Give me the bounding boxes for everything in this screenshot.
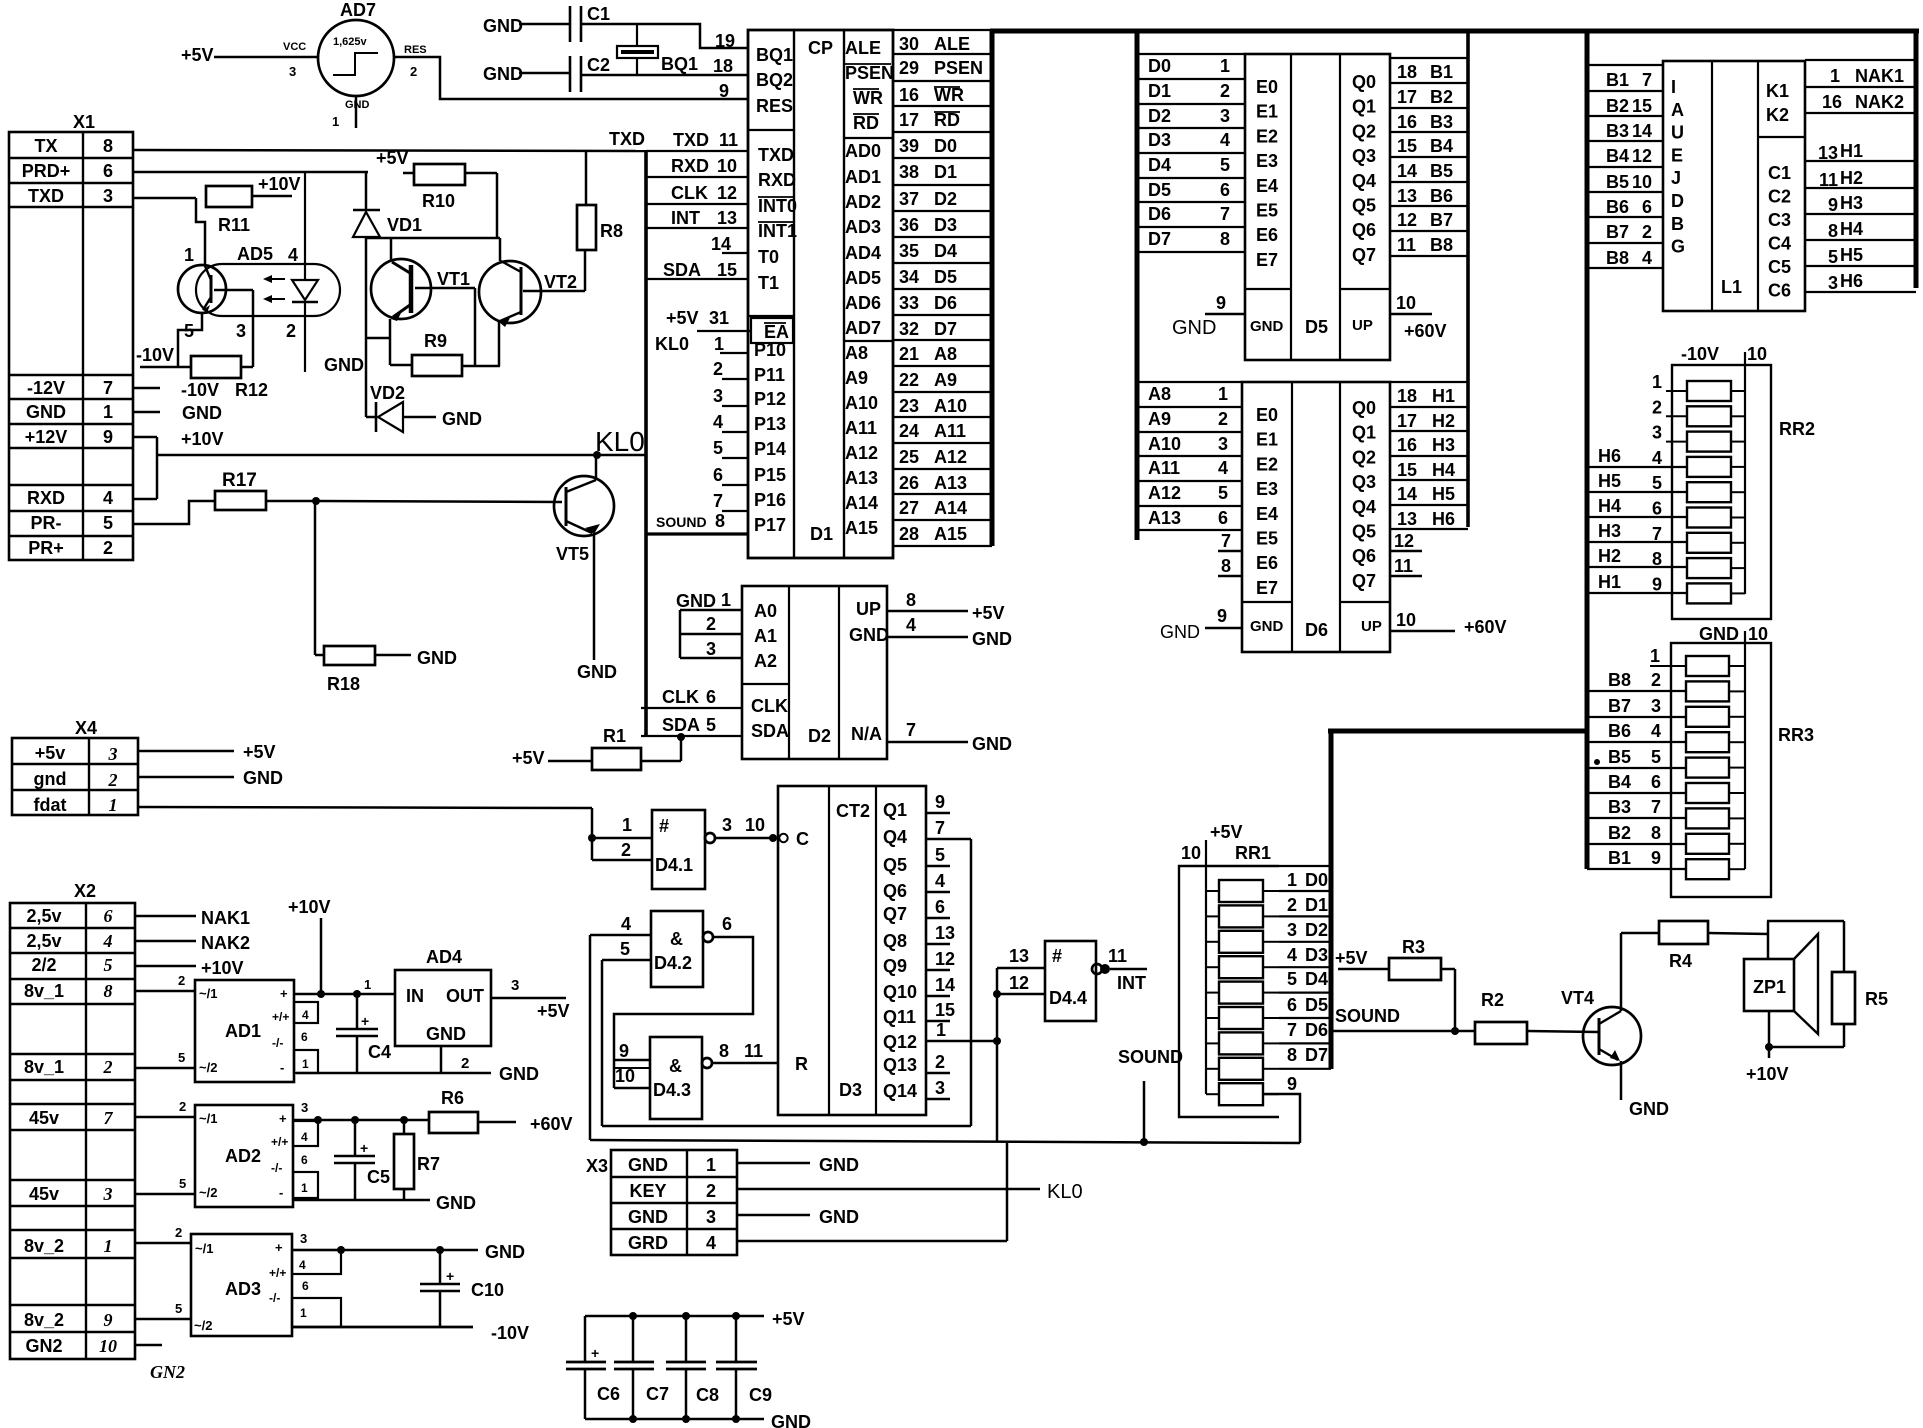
wire AD3 pin3 output bbox=[292, 1231, 525, 1262]
wire net Q4 to D4.2 input5 bbox=[602, 960, 971, 1126]
svg-text:GN2: GN2 bbox=[150, 1362, 185, 1382]
wire AD2 pin3 output bbox=[293, 1100, 429, 1124]
svg-text:D: D bbox=[1671, 191, 1684, 211]
svg-text:+: + bbox=[275, 1240, 283, 1255]
svg-text:B7: B7 bbox=[1606, 222, 1629, 242]
svg-text:NAK2: NAK2 bbox=[1855, 92, 1904, 112]
svg-text:GRD: GRD bbox=[628, 1233, 668, 1253]
svg-text:-10V: -10V bbox=[1681, 344, 1719, 364]
svg-text:+: + bbox=[361, 1013, 369, 1029]
opto LED diode bbox=[286, 172, 318, 372]
svg-text:1: 1 bbox=[721, 590, 731, 610]
wire X2 GN2 stub bbox=[135, 1345, 185, 1382]
svg-text:AD6: AD6 bbox=[845, 293, 881, 313]
svg-text:A15: A15 bbox=[934, 524, 967, 544]
svg-text:Q4: Q4 bbox=[883, 827, 907, 847]
svg-text:AD2: AD2 bbox=[845, 192, 881, 212]
svg-text:1: 1 bbox=[936, 1020, 946, 1040]
counter D3 bbox=[778, 786, 926, 1115]
svg-text:17: 17 bbox=[899, 110, 919, 130]
RR1 right pin rows bbox=[1279, 870, 1331, 1094]
svg-text:A2: A2 bbox=[754, 651, 777, 671]
svg-text:16: 16 bbox=[1822, 92, 1842, 112]
svg-text:26: 26 bbox=[899, 473, 919, 493]
resistor R12 bbox=[136, 345, 253, 378]
svg-text:A10: A10 bbox=[845, 393, 878, 413]
svg-text:D3: D3 bbox=[934, 215, 957, 235]
svg-text:1: 1 bbox=[300, 1306, 307, 1320]
svg-text:T1: T1 bbox=[758, 273, 779, 293]
svg-text:K2: K2 bbox=[1766, 105, 1789, 125]
svg-text:+60V: +60V bbox=[530, 1114, 573, 1134]
wire D4.1 output to D3 C input bbox=[715, 815, 777, 842]
svg-text:E7: E7 bbox=[1256, 578, 1278, 598]
svg-text:C2: C2 bbox=[587, 55, 610, 75]
svg-text:+5V: +5V bbox=[376, 148, 409, 168]
svg-text:7: 7 bbox=[104, 1108, 114, 1128]
logic gate D4.1 bbox=[592, 810, 715, 889]
svg-text:H4: H4 bbox=[1432, 460, 1455, 480]
svg-text:A11: A11 bbox=[1148, 458, 1180, 478]
svg-text:GND: GND bbox=[436, 1193, 476, 1213]
resistor R1 bbox=[512, 726, 685, 770]
regulator AD1 bbox=[195, 980, 294, 1082]
svg-text:AD4: AD4 bbox=[426, 947, 462, 967]
D1 right pin rows bbox=[893, 30, 992, 546]
svg-text:D4: D4 bbox=[934, 241, 957, 261]
svg-text:KL0: KL0 bbox=[655, 334, 689, 354]
svg-text:~/1: ~/1 bbox=[195, 1241, 213, 1256]
svg-text:1: 1 bbox=[301, 1181, 308, 1195]
svg-text:+10V: +10V bbox=[258, 174, 301, 194]
svg-text:4: 4 bbox=[1642, 248, 1652, 268]
svg-text:2: 2 bbox=[1218, 409, 1228, 429]
svg-text:E6: E6 bbox=[1256, 553, 1278, 573]
svg-text:5: 5 bbox=[104, 955, 113, 975]
svg-text:2/2: 2/2 bbox=[31, 955, 56, 975]
resistor R8 bbox=[577, 151, 623, 250]
svg-text:1: 1 bbox=[104, 1236, 113, 1256]
svg-text:27: 27 bbox=[899, 498, 919, 518]
wire opto pin 3 base bbox=[214, 290, 253, 367]
D1 left pin harness bbox=[646, 130, 751, 737]
svg-text:Q0: Q0 bbox=[1352, 72, 1376, 92]
svg-text:D6: D6 bbox=[934, 293, 957, 313]
svg-text:GND: GND bbox=[1172, 317, 1216, 339]
svg-text:GND: GND bbox=[1629, 1099, 1669, 1119]
AD1 pin6 label bbox=[301, 1030, 308, 1044]
svg-text:12: 12 bbox=[1632, 146, 1652, 166]
wire D2 UP pin 8 bbox=[887, 590, 1005, 623]
svg-text:Q5: Q5 bbox=[1352, 522, 1376, 542]
svg-text:+: + bbox=[279, 1111, 287, 1126]
svg-text:Q11: Q11 bbox=[883, 1007, 916, 1027]
svg-text:GND: GND bbox=[771, 1412, 811, 1428]
svg-text:D5: D5 bbox=[934, 267, 957, 287]
svg-text:Q6: Q6 bbox=[883, 881, 907, 901]
svg-text:KEY: KEY bbox=[629, 1181, 666, 1201]
svg-text:AD5: AD5 bbox=[845, 268, 881, 288]
svg-text:5: 5 bbox=[1828, 247, 1838, 267]
svg-text:D6: D6 bbox=[1305, 620, 1328, 640]
wire X1 TXD3 to R11 bbox=[133, 197, 196, 200]
svg-text:OUT: OUT bbox=[446, 986, 484, 1006]
svg-text:10: 10 bbox=[745, 815, 765, 835]
svg-text:GND: GND bbox=[182, 403, 222, 423]
svg-text:Q5: Q5 bbox=[883, 855, 907, 875]
svg-text:3: 3 bbox=[103, 186, 113, 206]
svg-text:2: 2 bbox=[935, 1052, 945, 1072]
svg-text:P16: P16 bbox=[754, 490, 786, 510]
svg-text:GND: GND bbox=[485, 1242, 525, 1262]
svg-text:R6: R6 bbox=[441, 1088, 464, 1108]
svg-text:+10V: +10V bbox=[288, 897, 331, 917]
svg-text:AD7: AD7 bbox=[340, 0, 376, 20]
svg-text:R10: R10 bbox=[422, 191, 455, 211]
svg-text:11: 11 bbox=[1394, 556, 1413, 576]
svg-text:Q10: Q10 bbox=[883, 982, 917, 1002]
svg-text:C9: C9 bbox=[749, 1385, 772, 1405]
svg-text:B2: B2 bbox=[1430, 87, 1453, 107]
svg-text:R18: R18 bbox=[327, 674, 360, 694]
svg-text:3: 3 bbox=[1218, 434, 1228, 454]
svg-text:B6: B6 bbox=[1608, 721, 1631, 741]
svg-text:R3: R3 bbox=[1402, 937, 1425, 957]
svg-text:CLK: CLK bbox=[751, 696, 788, 716]
svg-text:10: 10 bbox=[99, 1336, 117, 1356]
svg-text:+5V: +5V bbox=[666, 308, 699, 328]
svg-text:18: 18 bbox=[1397, 62, 1417, 82]
svg-text:1: 1 bbox=[1830, 66, 1840, 86]
wire VD1 node to VT1 VT2 collectors bbox=[366, 237, 500, 240]
svg-text:+5V: +5V bbox=[972, 603, 1005, 623]
svg-text:A8: A8 bbox=[934, 344, 957, 364]
wire R17 node to VT5 base bbox=[316, 501, 562, 502]
wire KL0 net bbox=[133, 437, 646, 499]
svg-text:D3: D3 bbox=[1148, 130, 1171, 150]
svg-text:Q1: Q1 bbox=[883, 800, 907, 820]
svg-text:8v_2: 8v_2 bbox=[24, 1236, 64, 1256]
AD3 pin4 stub box bbox=[292, 1250, 341, 1274]
svg-text:H5: H5 bbox=[1432, 484, 1455, 504]
svg-text:3: 3 bbox=[236, 321, 246, 341]
svg-text:+5V: +5V bbox=[243, 742, 276, 762]
svg-text:#: # bbox=[1052, 946, 1062, 966]
svg-text:2: 2 bbox=[286, 321, 296, 341]
svg-text:SDA: SDA bbox=[663, 260, 701, 280]
svg-text:30: 30 bbox=[899, 34, 919, 54]
svg-text:B3: B3 bbox=[1606, 121, 1629, 141]
svg-text:4: 4 bbox=[935, 871, 945, 891]
transistor VT1 bbox=[371, 238, 470, 321]
svg-text:6: 6 bbox=[1220, 180, 1230, 200]
svg-text:E7: E7 bbox=[1256, 250, 1278, 270]
svg-text:8: 8 bbox=[1221, 556, 1231, 576]
resistor R9 bbox=[390, 331, 500, 376]
svg-text:8: 8 bbox=[103, 136, 113, 156]
svg-text:1: 1 bbox=[706, 1155, 716, 1175]
wire C2 to D1 pin 18 bbox=[581, 74, 748, 77]
wire top bus bbox=[990, 29, 1919, 34]
latch D6 left pin rows bbox=[1137, 382, 1242, 576]
wire AD7 RES to D1 pin 9 bbox=[394, 57, 748, 99]
svg-text:+5v: +5v bbox=[35, 743, 66, 763]
svg-text:1: 1 bbox=[109, 795, 118, 815]
svg-text:#: # bbox=[659, 816, 669, 836]
svg-text:X1: X1 bbox=[73, 112, 95, 132]
svg-text:D4.1: D4.1 bbox=[655, 855, 693, 875]
svg-text:9: 9 bbox=[104, 1310, 113, 1330]
net label SOUND stub bbox=[1118, 1047, 1183, 1146]
svg-text:14: 14 bbox=[935, 975, 955, 995]
svg-text:5: 5 bbox=[1218, 483, 1228, 503]
svg-text:H4: H4 bbox=[1840, 219, 1863, 239]
svg-text:BQ2: BQ2 bbox=[756, 70, 793, 90]
svg-text:C1: C1 bbox=[587, 4, 610, 24]
resistor R5 bbox=[1832, 972, 1888, 1047]
svg-text:4: 4 bbox=[103, 488, 113, 508]
connector X1 bbox=[9, 112, 133, 560]
net label KL0 bbox=[595, 426, 645, 457]
svg-text:RXD: RXD bbox=[671, 156, 709, 176]
svg-text:E4: E4 bbox=[1256, 504, 1278, 524]
svg-text:~/2: ~/2 bbox=[194, 1318, 212, 1333]
svg-text:+: + bbox=[446, 1268, 454, 1284]
svg-text:2: 2 bbox=[1287, 895, 1297, 915]
svg-text:Q6: Q6 bbox=[1352, 220, 1376, 240]
svg-text:B2: B2 bbox=[1608, 823, 1631, 843]
svg-text:B1: B1 bbox=[1608, 848, 1631, 868]
L1 right pin rows bbox=[1805, 60, 1916, 293]
svg-text:8: 8 bbox=[1220, 229, 1230, 249]
svg-text:+10V: +10V bbox=[201, 958, 244, 978]
svg-text:-/-: -/- bbox=[271, 1161, 282, 1175]
capacitor C1 bbox=[483, 4, 610, 42]
svg-text:6: 6 bbox=[301, 1153, 308, 1167]
regulator AD3 bbox=[191, 1234, 292, 1336]
svg-text:H3: H3 bbox=[1840, 193, 1863, 213]
L1 left pin rows bbox=[1587, 65, 1663, 268]
svg-text:+60V: +60V bbox=[1404, 321, 1447, 341]
svg-text:3: 3 bbox=[300, 1231, 307, 1246]
svg-text:VT5: VT5 bbox=[556, 544, 589, 564]
svg-text:D1: D1 bbox=[1148, 81, 1171, 101]
svg-text:VCC: VCC bbox=[283, 41, 306, 53]
svg-text:3: 3 bbox=[1828, 273, 1838, 293]
svg-text:GND: GND bbox=[819, 1207, 859, 1227]
svg-text:10: 10 bbox=[1396, 610, 1416, 630]
svg-text:D1: D1 bbox=[1305, 895, 1328, 915]
svg-text:7: 7 bbox=[1651, 797, 1661, 817]
svg-text:R9: R9 bbox=[424, 331, 447, 351]
svg-text:E3: E3 bbox=[1256, 479, 1278, 499]
svg-text:Q8: Q8 bbox=[883, 931, 907, 951]
svg-text:5: 5 bbox=[706, 715, 716, 735]
svg-text:1,625v: 1,625v bbox=[333, 36, 368, 48]
svg-text:B4: B4 bbox=[1606, 146, 1629, 166]
svg-text:D1: D1 bbox=[810, 524, 833, 544]
svg-text:6: 6 bbox=[935, 897, 945, 917]
svg-text:16: 16 bbox=[1397, 112, 1417, 132]
regulator AD4 bbox=[395, 947, 491, 1046]
svg-text:8: 8 bbox=[1828, 221, 1838, 241]
svg-text:5: 5 bbox=[1287, 969, 1297, 989]
svg-text:A12: A12 bbox=[845, 443, 878, 463]
svg-text:INT0: INT0 bbox=[758, 196, 797, 216]
svg-text:24: 24 bbox=[899, 421, 919, 441]
logic gate D4.2 bbox=[590, 911, 732, 987]
svg-text:SOUND: SOUND bbox=[1118, 1047, 1183, 1067]
wire X2 pin8 to AD1 bbox=[135, 973, 195, 991]
svg-text:5: 5 bbox=[1220, 155, 1230, 175]
svg-text:2: 2 bbox=[461, 1055, 469, 1072]
svg-text:Q2: Q2 bbox=[1352, 447, 1376, 467]
svg-text:+5V: +5V bbox=[512, 748, 545, 768]
logic gate D4.4 bbox=[997, 941, 1110, 1021]
svg-text:GND: GND bbox=[819, 1155, 859, 1175]
svg-text:2,5v: 2,5v bbox=[26, 931, 61, 951]
svg-text:3: 3 bbox=[103, 1184, 113, 1204]
svg-text:P17: P17 bbox=[754, 515, 786, 535]
svg-text:4: 4 bbox=[1651, 721, 1661, 741]
svg-text:+/+: +/+ bbox=[272, 1010, 289, 1024]
svg-text:1: 1 bbox=[1220, 56, 1230, 76]
svg-text:B4: B4 bbox=[1608, 772, 1631, 792]
svg-text:T0: T0 bbox=[758, 247, 779, 267]
svg-text:AD1: AD1 bbox=[225, 1021, 261, 1041]
svg-text:2: 2 bbox=[1651, 670, 1661, 690]
svg-text:D4.3: D4.3 bbox=[653, 1080, 691, 1100]
wire VT1 base to R9 right bbox=[415, 288, 475, 366]
svg-text:2: 2 bbox=[178, 973, 185, 988]
svg-text:Q7: Q7 bbox=[883, 904, 907, 924]
svg-text:D5: D5 bbox=[1305, 995, 1328, 1015]
svg-text:WR: WR bbox=[934, 85, 964, 105]
svg-text:9: 9 bbox=[1652, 574, 1662, 594]
svg-text:E0: E0 bbox=[1256, 405, 1278, 425]
latch D6 bbox=[1242, 382, 1390, 652]
svg-text:AD0: AD0 bbox=[845, 141, 881, 161]
svg-text:6: 6 bbox=[1287, 995, 1297, 1015]
svg-text:12: 12 bbox=[1394, 531, 1414, 551]
svg-text:E1: E1 bbox=[1256, 430, 1278, 450]
svg-text:GND: GND bbox=[324, 355, 364, 375]
svg-text:2: 2 bbox=[1642, 222, 1652, 242]
svg-text:AD4: AD4 bbox=[845, 243, 881, 263]
svg-text:BQ1: BQ1 bbox=[756, 45, 793, 65]
svg-text:Q2: Q2 bbox=[1352, 121, 1376, 141]
resistor R7 bbox=[394, 1120, 440, 1200]
svg-text:5: 5 bbox=[713, 438, 723, 458]
svg-text:2: 2 bbox=[621, 840, 631, 860]
wire AD1 pin3 output bbox=[294, 977, 395, 998]
wire bus D1-right bbox=[990, 29, 995, 546]
svg-text:H1: H1 bbox=[1432, 386, 1455, 406]
svg-text:32: 32 bbox=[899, 319, 919, 339]
resistor R3 bbox=[1335, 937, 1455, 1031]
svg-text:2: 2 bbox=[179, 1099, 186, 1114]
wire D5 UP pin 10 +60V bbox=[1390, 293, 1447, 341]
svg-text:CT2: CT2 bbox=[836, 801, 870, 821]
crystal BQ1 bbox=[617, 24, 698, 75]
svg-text:AD3: AD3 bbox=[845, 217, 881, 237]
svg-text:PSEN: PSEN bbox=[845, 63, 894, 83]
svg-text:Q12: Q12 bbox=[883, 1032, 917, 1052]
svg-text:K1: K1 bbox=[1766, 81, 1789, 101]
capacitor C5 bbox=[334, 1120, 390, 1200]
opto light arrows bbox=[263, 275, 285, 303]
svg-text:45v: 45v bbox=[29, 1108, 59, 1128]
resistor R18 bbox=[315, 501, 457, 694]
svg-text:Q1: Q1 bbox=[1352, 97, 1376, 117]
wire D2 A0 A1 A2 to GND bbox=[676, 590, 742, 659]
svg-text:GND: GND bbox=[417, 648, 457, 668]
svg-text:6: 6 bbox=[713, 465, 723, 485]
svg-text:17: 17 bbox=[1397, 411, 1417, 431]
svg-text:4: 4 bbox=[1220, 130, 1230, 150]
connector X2 bbox=[10, 881, 135, 1359]
capacitor C9 bbox=[716, 1316, 772, 1419]
svg-text:Q14: Q14 bbox=[883, 1081, 917, 1101]
svg-text:7: 7 bbox=[713, 491, 723, 511]
svg-text:INT: INT bbox=[1117, 973, 1146, 993]
svg-text:CLK: CLK bbox=[662, 687, 699, 707]
regulator AD2 bbox=[195, 1105, 293, 1207]
svg-text:H5: H5 bbox=[1840, 245, 1863, 265]
svg-text:12: 12 bbox=[1397, 210, 1417, 230]
svg-text:GND: GND bbox=[426, 1024, 466, 1044]
wire X3 pin2 KL0 bbox=[737, 1181, 1083, 1203]
svg-text:fdat: fdat bbox=[34, 795, 67, 815]
wire TX-TXD net bbox=[133, 129, 646, 151]
svg-text:E6: E6 bbox=[1256, 225, 1278, 245]
svg-text:13: 13 bbox=[717, 208, 737, 228]
wire X4 gnd bbox=[138, 768, 283, 788]
svg-text:Q7: Q7 bbox=[1352, 571, 1376, 591]
svg-text:7: 7 bbox=[935, 818, 945, 838]
svg-text:4: 4 bbox=[103, 931, 113, 951]
wire X1 +12V stub bbox=[133, 429, 224, 449]
node GND label near VD1 bbox=[324, 355, 364, 375]
svg-text:4: 4 bbox=[1652, 448, 1662, 468]
svg-text:UP: UP bbox=[1352, 317, 1373, 334]
voltage monitor AD7 bbox=[283, 0, 427, 129]
svg-text:AD2: AD2 bbox=[225, 1146, 261, 1166]
svg-text:14: 14 bbox=[1397, 161, 1417, 181]
svg-text:8v_1: 8v_1 bbox=[24, 981, 64, 1001]
svg-text:8: 8 bbox=[1287, 1045, 1297, 1065]
svg-text:9: 9 bbox=[1651, 848, 1661, 868]
svg-text:ALE: ALE bbox=[934, 34, 970, 54]
svg-text:8: 8 bbox=[715, 511, 725, 531]
svg-text:G: G bbox=[1671, 237, 1685, 257]
svg-text:2: 2 bbox=[1220, 81, 1230, 101]
transistor VT2 bbox=[479, 238, 577, 366]
svg-text:+: + bbox=[280, 986, 288, 1001]
wire X1 -12V stub bbox=[133, 380, 268, 400]
svg-text:9: 9 bbox=[935, 792, 945, 812]
svg-text:18: 18 bbox=[1397, 386, 1417, 406]
AD1 pin4 stub box bbox=[294, 1002, 318, 1023]
svg-text:+10V: +10V bbox=[181, 429, 224, 449]
svg-text:13: 13 bbox=[935, 923, 955, 943]
svg-text:R8: R8 bbox=[600, 221, 623, 241]
svg-text:VT4: VT4 bbox=[1561, 988, 1594, 1008]
svg-text:~/1: ~/1 bbox=[199, 986, 217, 1001]
svg-text:Q3: Q3 bbox=[1352, 472, 1376, 492]
svg-text:4: 4 bbox=[299, 1258, 306, 1272]
svg-text:TXD: TXD bbox=[758, 145, 794, 165]
